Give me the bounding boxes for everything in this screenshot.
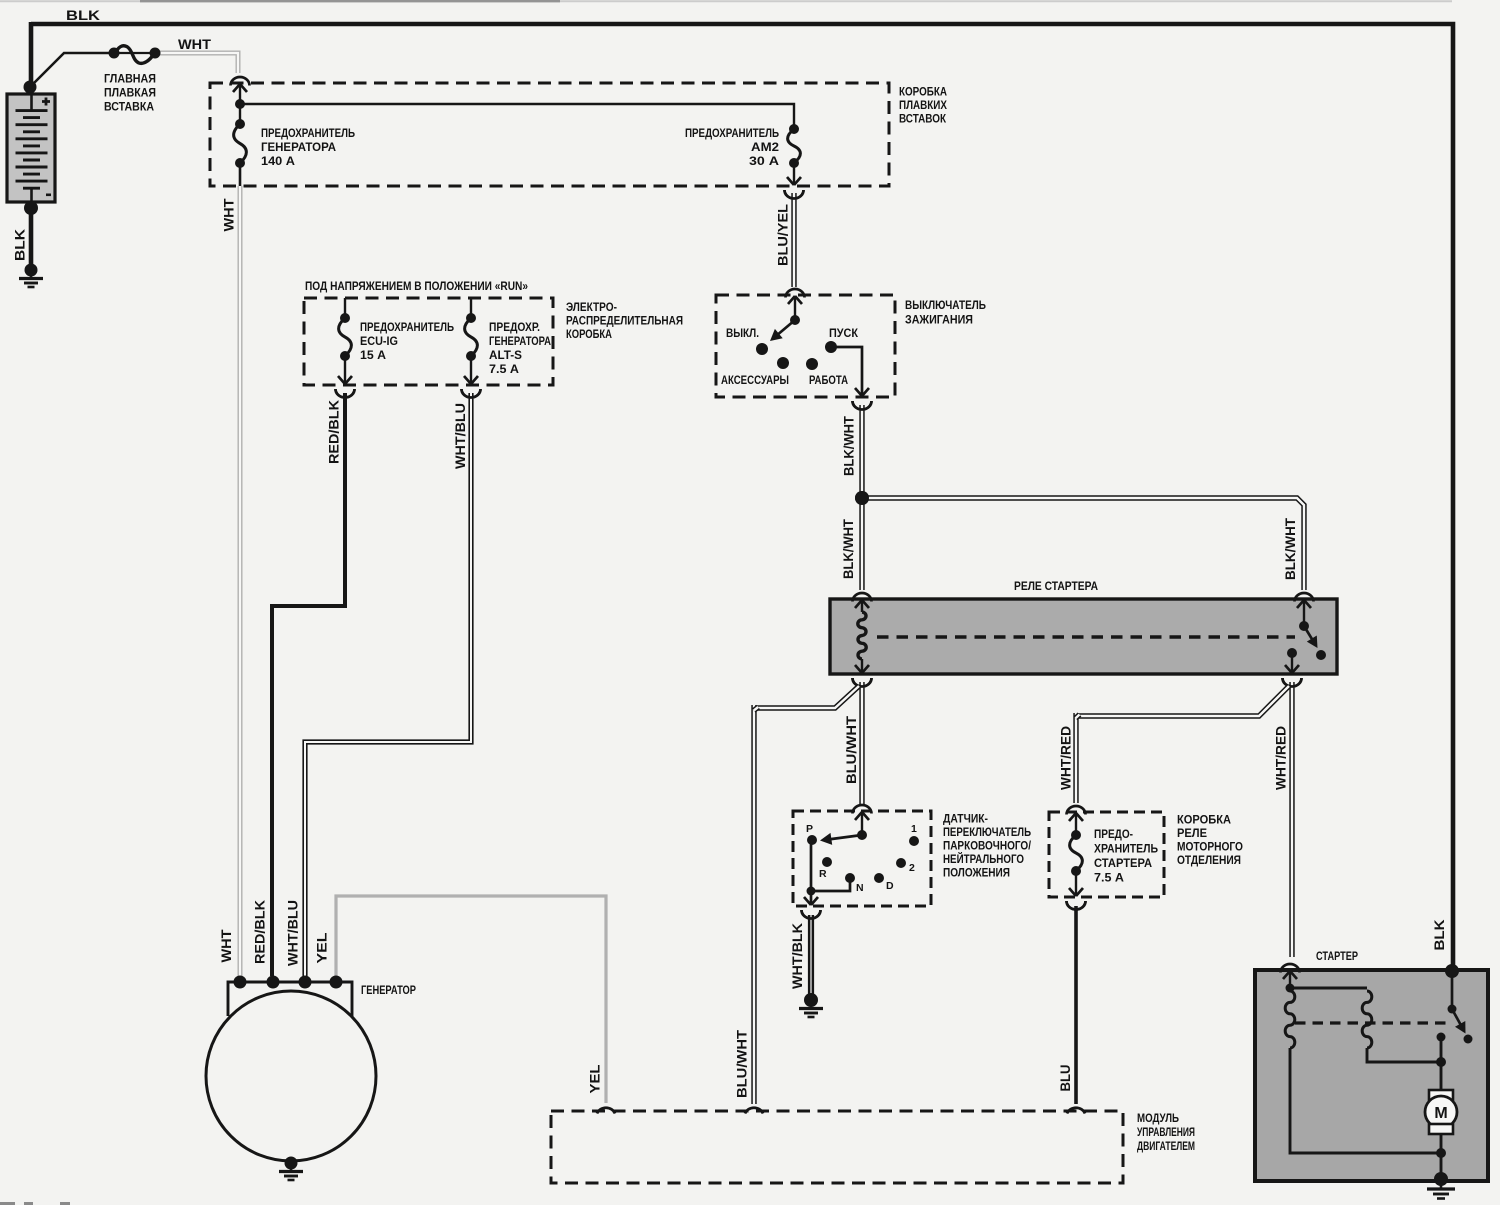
svg-text:ВЫКЛЮЧАТЕЛЬ: ВЫКЛЮЧАТЕЛЬ <box>905 298 986 312</box>
svg-text:ПАРКОВОЧНОГО/: ПАРКОВОЧНОГО/ <box>943 839 1031 853</box>
wire WHT/RED: branch to starter fuse <box>1076 686 1289 716</box>
svg-text:YEL: YEL <box>315 933 330 964</box>
svg-text:НЕЙТРАЛЬНОГО: НЕЙТРАЛЬНОГО <box>943 851 1024 866</box>
wire BLU/YEL: AM2 fuse to ignition switch <box>791 193 796 287</box>
node: ignition ВЫКЛ contact <box>756 343 768 355</box>
connector: WHT/RED into starter fuse box <box>1067 806 1086 815</box>
svg-text:RED/BLK: RED/BLK <box>253 900 268 964</box>
box: МОДУЛЬ УПРАВЛЕНИЯ ДВИГАТЕЛЕМ (engine control module) <box>551 1111 1123 1183</box>
svg-text:ГЕНЕРАТОР: ГЕНЕРАТОР <box>361 983 416 997</box>
node: D contact <box>874 873 884 883</box>
svg-text:ГЕНЕРАТОРА: ГЕНЕРАТОРА <box>489 334 551 348</box>
box: КОРОБКА РЕЛЕ МОТОРНОГО ОТДЕЛЕНИЯ (engine room relay box) <box>1049 812 1164 897</box>
svg-text:КОРОБКА: КОРОБКА <box>899 85 947 99</box>
fuse: ПРЕДОХРАНИТЕЛЬ СТАРТЕРА 7.5 A <box>1075 814 1077 835</box>
svg-text:D: D <box>886 880 894 892</box>
connector: BLU into ECM <box>1067 1108 1085 1114</box>
connector: BLU/YEL into ignition switch <box>786 289 805 298</box>
connector: AM2 fuse exit <box>787 177 801 185</box>
svg-text:WHT/RED: WHT/RED <box>1274 726 1289 790</box>
generator: ГЕНЕРАТОР <box>228 982 352 1016</box>
fuse: ПРЕДОХРАНИТЕЛЬ ГЕНЕРАТОРА 140 A <box>239 104 241 124</box>
svg-text:YEL: YEL <box>588 1065 603 1094</box>
svg-text:WHT/BLU: WHT/BLU <box>286 900 301 966</box>
node: P/N exit junction <box>807 887 816 896</box>
connector: P/N switch exit (WHT/BLK) <box>804 897 818 905</box>
node: starter switch output <box>1437 1033 1446 1042</box>
svg-text:РАСПРЕДЕЛИТЕЛЬНАЯ: РАСПРЕДЕЛИТЕЛЬНАЯ <box>566 314 683 328</box>
svg-text:ПРЕДОХР.: ПРЕДОХР. <box>489 320 540 334</box>
svg-text:РЕЛЕ: РЕЛЕ <box>1177 826 1207 840</box>
fuse: ПРЕДОХРАНИТЕЛЬ ECU-IG 15 A <box>344 298 346 318</box>
relay coil <box>861 601 863 612</box>
connector: starter fuse exit (BLU) <box>1069 888 1083 896</box>
page corner print artifact <box>0 1202 70 1205</box>
wire: motor to starter ground <box>1440 1134 1443 1178</box>
svg-text:КОРОБКА: КОРОБКА <box>566 327 612 341</box>
svg-text:ПРЕДОХРАНИТЕЛЬ: ПРЕДОХРАНИТЕЛЬ <box>685 126 779 140</box>
fuse: ПРЕДОХР. ГЕНЕРАТОРА ALT-S 7.5 A <box>470 298 472 318</box>
svg-text:ПЕРЕКЛЮЧАТЕЛЬ: ПЕРЕКЛЮЧАТЕЛЬ <box>943 825 1031 839</box>
wire: junction to fusible link (diagonal) <box>30 53 113 87</box>
node: pull-in coil junction <box>1436 1057 1446 1067</box>
wire WHT: fusible link to fuse box <box>155 53 238 73</box>
svg-text:7.5 А: 7.5 А <box>489 362 519 376</box>
connector: relay coil top (BLK/WHT in) <box>853 593 872 602</box>
node: P contact <box>807 835 817 845</box>
connector: relay coil bottom exit <box>855 665 869 673</box>
starter motor M <box>1429 1090 1453 1100</box>
svg-text:ПРЕДОХРАНИТЕЛЬ: ПРЕДОХРАНИТЕЛЬ <box>261 126 355 140</box>
svg-text:ПЛАВКИХ: ПЛАВКИХ <box>899 98 948 112</box>
wire BLU/WHT: relay coil exit to P/N switch <box>859 682 864 804</box>
node: 1 contact <box>909 836 919 846</box>
wire BLK/WHT: ignition to junction <box>859 405 864 498</box>
svg-text:ALT-S: ALT-S <box>489 348 522 362</box>
svg-text:P: P <box>806 823 813 835</box>
connector: ALT-S fuse exit <box>464 376 478 384</box>
ground: generator <box>285 1157 298 1170</box>
node: R contact <box>822 857 832 867</box>
svg-text:ПЛАВКАЯ: ПЛАВКАЯ <box>104 86 156 100</box>
ignition switch arm <box>794 298 796 320</box>
svg-text:УПРАВЛЕНИЯ: УПРАВЛЕНИЯ <box>1137 1125 1195 1139</box>
fuse: ПРЕДОХРАНИТЕЛЬ AM2 30 A <box>789 124 799 134</box>
svg-text:ВСТАВОК: ВСТАВОК <box>899 112 946 126</box>
svg-text:ВЫКЛ.: ВЫКЛ. <box>726 328 759 340</box>
wire: fuse box internal bus <box>239 86 241 103</box>
svg-text:АМ2: АМ2 <box>751 140 779 154</box>
svg-text:МОДУЛЬ: МОДУЛЬ <box>1137 1111 1179 1125</box>
svg-text:WHT: WHT <box>219 929 234 963</box>
wire BLU: starter fuse to engine control module <box>1074 906 1078 1104</box>
node: N contact <box>845 873 855 883</box>
svg-text:BLU/WHT: BLU/WHT <box>844 715 859 784</box>
svg-text:WHT/BLU: WHT/BLU <box>453 403 468 469</box>
ground: P/N switch <box>804 993 818 1007</box>
svg-text:РАБОТА: РАБОТА <box>809 375 848 387</box>
ground: starter <box>1434 1172 1448 1186</box>
node: BLK/WHT junction <box>855 491 869 505</box>
connector: YEL into ECM <box>597 1108 615 1114</box>
wire BLK/WHT: junction to relay right terminal <box>862 498 1304 590</box>
node: generator terminal WHT/BLU <box>299 976 312 989</box>
svg-text:1: 1 <box>911 823 917 835</box>
svg-text:BLU/WHT: BLU/WHT <box>735 1029 750 1098</box>
svg-text:ПУСК: ПУСК <box>829 328 859 340</box>
svg-text:BLK/WHT: BLK/WHT <box>841 518 856 579</box>
page top-edge scan artifact <box>0 0 1452 2</box>
relay internal dashed separator <box>877 635 1295 638</box>
box: ЭЛЕКТРО-РАСПРЕДЕЛИТЕЛЬНАЯ КОРОБКА <box>304 298 553 385</box>
wire: P contact to switch exit via N contact <box>811 840 850 891</box>
connector: WHT/RED into starter <box>1281 964 1300 973</box>
node: ignition АКСЕССУАРЫ contact <box>777 357 789 369</box>
svg-text:M: M <box>1434 1105 1447 1122</box>
svg-text:ECU-IG: ECU-IG <box>360 334 398 348</box>
connector: BLU/WHT into ECM <box>745 1108 763 1114</box>
node: ignition ПУСК contact <box>825 341 837 353</box>
fusible link: ГЛАВНАЯ ПЛАВКАЯ ВСТАВКА <box>113 52 155 54</box>
svg-text:МОТОРНОГО: МОТОРНОГО <box>1177 840 1243 854</box>
svg-text:ЗАЖИГАНИЯ: ЗАЖИГАНИЯ <box>905 313 973 327</box>
wire WHT/BLK: P/N switch to ground <box>808 915 814 997</box>
wire WHT/RED: relay output down to starter <box>1289 682 1294 957</box>
node: ignition РАБОТА contact <box>806 358 818 370</box>
svg-text:РЕЛЕ СТАРТЕРА: РЕЛЕ СТАРТЕРА <box>1014 579 1098 593</box>
svg-text:WHT: WHT <box>222 198 237 232</box>
svg-text:СТАРТЕР: СТАРТЕР <box>1316 951 1358 963</box>
svg-text:ХРАНИТЕЛЬ: ХРАНИТЕЛЬ <box>1094 842 1158 856</box>
wire BLU/WHT: branch to engine control module <box>757 686 859 708</box>
battery <box>7 94 55 202</box>
svg-text:R: R <box>819 868 827 880</box>
box: ВЫКЛЮЧАТЕЛЬ ЗАЖИГАНИЯ (ignition switch) <box>716 295 895 397</box>
svg-text:WHT: WHT <box>178 37 212 52</box>
starter pull-in coil <box>1290 987 1367 990</box>
connector: relay switch output exit (WHT/RED) <box>1285 665 1299 673</box>
wire: exit junction down <box>810 891 813 903</box>
node: motor/hold-in coil junction <box>1436 1148 1446 1158</box>
box: ДАТЧИК-ПЕРЕКЛЮЧАТЕЛЬ ПАРКОВОЧНОГО/НЕЙТРАЛЬНОГО ПОЛОЖЕНИЯ (park/neutral switch) <box>793 811 931 906</box>
wire BLK: battery negative to ground <box>29 208 34 268</box>
node: generator terminal YEL <box>330 976 343 989</box>
svg-text:ПРЕДО-: ПРЕДО- <box>1094 827 1133 841</box>
node: battery negative terminal <box>24 201 38 215</box>
wire: battery positive drop <box>29 22 34 90</box>
svg-text:ЭЛЕКТРО-: ЭЛЕКТРО- <box>566 300 617 314</box>
svg-text:N: N <box>856 882 864 894</box>
starter: СТАРТЕР box <box>1255 970 1488 1181</box>
svg-text:ОТДЕЛЕНИЯ: ОТДЕЛЕНИЯ <box>1177 853 1241 867</box>
svg-text:7.5 А: 7.5 А <box>1094 871 1124 885</box>
starter switch contact arm <box>1451 971 1454 1006</box>
svg-text:ПРЕДОХРАНИТЕЛЬ: ПРЕДОХРАНИТЕЛЬ <box>360 320 454 334</box>
svg-text:ГЕНЕРАТОРА: ГЕНЕРАТОРА <box>261 140 336 154</box>
svg-text:30 А: 30 А <box>749 154 779 168</box>
svg-text:КОРОБКА: КОРОБКА <box>1177 813 1231 827</box>
connector: ignition switch exit (BLK/WHT) <box>855 388 869 396</box>
starter internal dashed link <box>1295 1021 1449 1024</box>
node: generator terminal WHT <box>234 976 247 989</box>
connector: WHT into fuse box top <box>231 77 250 86</box>
svg-text:ПОЛОЖЕНИЯ: ПОЛОЖЕНИЯ <box>943 866 1010 880</box>
wire YEL: generator to ECM <box>336 896 606 1103</box>
wire: ПУСК contact to switch exit <box>831 347 862 395</box>
box: КОРОБКА ПЛАВКИХ ВСТАВОК (fusible link box) <box>210 83 889 186</box>
wire RED/BLK: ECU-IG fuse to generator <box>272 393 345 976</box>
svg-text:ПОД НАПРЯЖЕНИЕМ В ПОЛОЖЕНИИ «R: ПОД НАПРЯЖЕНИЕМ В ПОЛОЖЕНИИ «RUN» <box>305 279 528 293</box>
svg-text:BLK: BLK <box>13 229 28 261</box>
svg-text:BLK: BLK <box>66 8 100 23</box>
svg-text:ДВИГАТЕЛЕМ: ДВИГАТЕЛЕМ <box>1137 1139 1195 1153</box>
wire WHT: fuse box down to generator <box>238 186 243 976</box>
svg-text:BLU/YEL: BLU/YEL <box>776 204 791 266</box>
node: generator terminal RED/BLK <box>267 976 280 989</box>
ground: battery <box>25 264 38 277</box>
svg-text:ГЛАВНАЯ: ГЛАВНАЯ <box>104 72 156 86</box>
svg-text:ДАТЧИК-: ДАТЧИК- <box>943 812 988 826</box>
svg-text:RED/BLK: RED/BLK <box>327 400 342 464</box>
svg-text:WHT/BLK: WHT/BLK <box>790 923 805 989</box>
svg-text:BLK/WHT: BLK/WHT <box>1283 517 1298 580</box>
svg-text:BLU: BLU <box>1058 1065 1073 1092</box>
svg-text:140 А: 140 А <box>261 154 295 168</box>
wire WHT/BLU: ALT-S fuse to generator <box>305 393 471 976</box>
svg-text:ВСТАВКА: ВСТАВКА <box>104 100 154 114</box>
connector: BLU/WHT into P/N switch <box>853 805 872 814</box>
svg-text:WHT/RED: WHT/RED <box>1059 726 1074 790</box>
connector: ECU-IG fuse exit <box>338 376 352 384</box>
starter hold-in coil <box>1289 972 1291 988</box>
wire BLK/WHT: junction down to relay left terminal <box>859 498 864 590</box>
svg-text:BLK/WHT: BLK/WHT <box>842 415 857 476</box>
svg-text:АКСЕССУАРЫ: АКСЕССУАРЫ <box>721 375 789 387</box>
node: relay switch output contact <box>1287 648 1297 658</box>
svg-text:2: 2 <box>909 862 915 874</box>
wire: switch output to motor <box>1440 1037 1443 1092</box>
node: BLK junction at starter top <box>1445 964 1459 978</box>
node: 2 contact <box>896 858 906 868</box>
svg-text:15 А: 15 А <box>360 348 386 362</box>
node: battery positive junction <box>24 81 37 94</box>
relay switch contact arm <box>1303 601 1305 622</box>
svg-text:BLK: BLK <box>1432 919 1447 950</box>
svg-text:СТАРТЕРА: СТАРТЕРА <box>1094 856 1152 870</box>
P/N switch wiper arm <box>861 813 863 835</box>
relay: РЕЛЕ СТАРТЕРА box <box>830 599 1337 674</box>
connector: relay switch top (BLK/WHT in) <box>1295 593 1314 602</box>
wire: BLK main feed from battery along top to starter <box>31 24 1453 969</box>
